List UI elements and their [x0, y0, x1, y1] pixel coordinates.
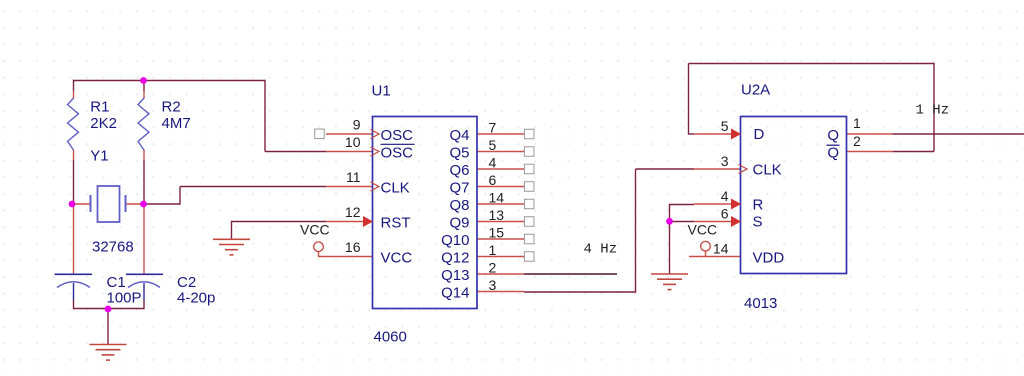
svg-text:6: 6: [721, 206, 729, 222]
svg-text:1: 1: [853, 115, 861, 131]
svg-text:Y1: Y1: [90, 148, 108, 165]
svg-text:Q5: Q5: [449, 145, 469, 162]
svg-text:VCC: VCC: [300, 222, 330, 238]
svg-text:4060: 4060: [374, 329, 407, 346]
svg-text:Q14: Q14: [441, 285, 469, 302]
svg-text:100P: 100P: [107, 290, 142, 307]
svg-text:OSC: OSC: [381, 145, 414, 162]
svg-text:7: 7: [489, 119, 497, 135]
svg-text:Q4: Q4: [449, 127, 469, 144]
svg-text:Q6: Q6: [449, 162, 469, 179]
svg-text:Q: Q: [827, 127, 839, 144]
svg-text:14: 14: [489, 189, 505, 205]
svg-text:RST: RST: [381, 215, 411, 232]
svg-text:2: 2: [853, 133, 861, 149]
svg-text:9: 9: [353, 117, 361, 133]
svg-text:Q: Q: [827, 145, 839, 162]
svg-text:D: D: [754, 126, 765, 143]
svg-text:4M7: 4M7: [162, 115, 191, 132]
svg-text:1 Hz: 1 Hz: [916, 103, 950, 119]
svg-text:R1: R1: [90, 99, 109, 116]
svg-text:3: 3: [721, 153, 729, 169]
svg-text:4 Hz: 4 Hz: [584, 242, 618, 258]
svg-text:C2: C2: [177, 274, 196, 291]
svg-text:OSC: OSC: [381, 127, 414, 144]
svg-text:CLK: CLK: [753, 162, 782, 179]
svg-text:VCC: VCC: [688, 222, 718, 238]
svg-text:U1: U1: [372, 83, 391, 100]
svg-text:4-20p: 4-20p: [177, 290, 215, 307]
svg-text:12: 12: [345, 204, 361, 220]
svg-text:6: 6: [489, 172, 497, 188]
svg-text:13: 13: [489, 207, 505, 223]
svg-text:10: 10: [345, 134, 361, 150]
svg-text:CLK: CLK: [381, 180, 410, 197]
svg-text:4: 4: [489, 154, 497, 170]
svg-text:Q10: Q10: [441, 232, 469, 249]
svg-text:32768: 32768: [92, 239, 134, 256]
svg-text:1: 1: [489, 242, 497, 258]
svg-text:5: 5: [489, 137, 497, 153]
svg-text:14: 14: [713, 241, 729, 257]
svg-text:2K2: 2K2: [90, 115, 117, 132]
svg-text:Q13: Q13: [441, 267, 469, 284]
svg-text:Q7: Q7: [449, 180, 469, 197]
svg-text:C1: C1: [107, 274, 126, 291]
svg-text:Q9: Q9: [449, 215, 469, 232]
svg-text:S: S: [753, 214, 763, 231]
svg-text:R2: R2: [162, 99, 181, 116]
svg-text:Q8: Q8: [449, 197, 469, 214]
svg-text:R: R: [753, 197, 764, 214]
svg-text:4013: 4013: [744, 295, 777, 312]
svg-text:4: 4: [721, 188, 729, 204]
svg-text:U2A: U2A: [741, 82, 770, 99]
svg-text:2: 2: [489, 259, 497, 275]
svg-text:3: 3: [489, 277, 497, 293]
svg-text:Q12: Q12: [441, 250, 469, 267]
svg-text:15: 15: [489, 224, 505, 240]
svg-text:VDD: VDD: [753, 250, 785, 267]
svg-text:5: 5: [721, 118, 729, 134]
svg-text:16: 16: [345, 239, 361, 255]
svg-text:11: 11: [346, 169, 361, 185]
svg-text:VCC: VCC: [381, 250, 413, 267]
